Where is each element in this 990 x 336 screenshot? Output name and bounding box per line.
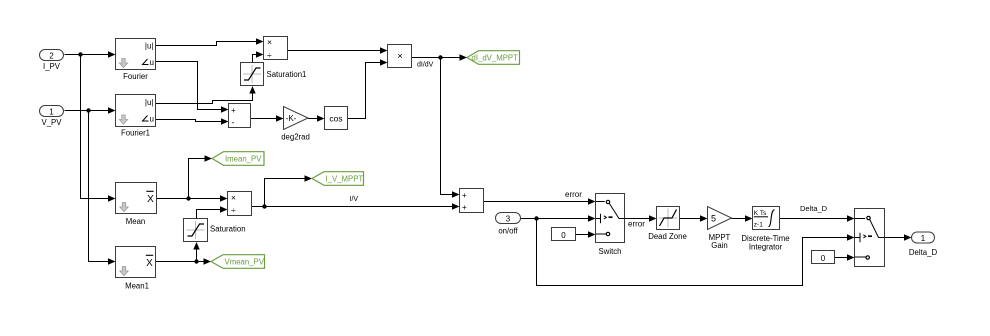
svg-text:dI/dV: dI/dV bbox=[417, 62, 434, 69]
block Saturation1 bbox=[241, 63, 307, 86]
svg-text:Fourier1: Fourier1 bbox=[121, 128, 150, 137]
wire Fourier1 |u| to Saturation1 bottom input bbox=[156, 86, 256, 104]
svg-text:deg2rad: deg2rad bbox=[281, 133, 310, 142]
svg-text:-: - bbox=[232, 118, 235, 128]
goto tag Vmean_PV bbox=[211, 255, 265, 269]
wire V_PV to Fourier1 bbox=[65, 107, 116, 113]
svg-text:+: + bbox=[462, 203, 467, 212]
wire I_PV to Fourier bbox=[65, 51, 116, 57]
svg-text:Fourier: Fourier bbox=[123, 72, 148, 81]
junction on dI/dV wire bbox=[438, 55, 442, 59]
svg-text:Integrator: Integrator bbox=[749, 242, 783, 251]
svg-text:X: X bbox=[147, 194, 154, 205]
svg-text:-K-: -K- bbox=[286, 114, 297, 123]
svg-text:Vmean_PV: Vmean_PV bbox=[225, 258, 265, 267]
wire Constant to Switch lower input bbox=[576, 231, 596, 237]
svg-text:2: 2 bbox=[49, 51, 54, 60]
wire Switch1 to Delta_D outport bbox=[885, 234, 912, 240]
block Constant 0 bbox=[552, 228, 576, 241]
wire dI/dV branch down to Sum1 upper input bbox=[441, 58, 460, 198]
svg-text:+: + bbox=[462, 191, 467, 200]
wire Dead Zone to MPPT Gain bbox=[680, 215, 708, 221]
svg-text:Gain: Gain bbox=[711, 241, 727, 250]
svg-text:1: 1 bbox=[921, 234, 926, 243]
block Saturation bbox=[184, 219, 246, 242]
block Discrete-Time Integrator bbox=[741, 207, 789, 252]
outport 1 Delta_D bbox=[909, 232, 938, 257]
svg-text:×: × bbox=[267, 37, 272, 47]
junction on on/off wire bbox=[534, 216, 538, 220]
inport 3 on/off bbox=[496, 213, 521, 236]
svg-text:3: 3 bbox=[506, 214, 511, 223]
svg-text:error: error bbox=[565, 190, 582, 199]
wire Mean to Divide2 x input bbox=[157, 195, 228, 201]
block Dead Zone bbox=[648, 207, 687, 242]
block Fourier bbox=[116, 39, 156, 82]
wire Sum1 to Switch upper input, label error bbox=[484, 190, 596, 205]
wire on/off to Switch middle input bbox=[521, 215, 596, 221]
block Sum1 plus-plus bbox=[460, 189, 484, 213]
goto tag I_V_MPPT bbox=[312, 172, 364, 186]
svg-text:I_PV: I_PV bbox=[43, 62, 61, 71]
block Switch1 bbox=[855, 209, 885, 267]
svg-text:0: 0 bbox=[561, 231, 566, 240]
svg-text:Dead Zone: Dead Zone bbox=[648, 232, 687, 241]
junction on I_PV wire bbox=[78, 52, 82, 56]
wire Divide1 to Product bbox=[288, 47, 388, 53]
svg-text:Saturation1: Saturation1 bbox=[267, 70, 307, 79]
wire Mean1 branch up to Saturation bottom input bbox=[193, 242, 199, 262]
block deg2rad gain bbox=[281, 107, 310, 142]
wire Saturation1 to Divide1 divide input bbox=[253, 51, 264, 62]
block Divide2 bbox=[228, 192, 252, 216]
wire Mean branch up to Imean_PV tag bbox=[189, 155, 213, 198]
block Fourier1 bbox=[116, 95, 156, 138]
wire cos to Product lower input bbox=[348, 59, 388, 118]
block cos bbox=[325, 107, 348, 130]
wire Integrator to Switch1 upper input, label Delta_D bbox=[780, 204, 855, 222]
wire Sum2 to deg2rad bbox=[251, 115, 284, 121]
block Switch bbox=[596, 194, 625, 257]
block MPPT Gain bbox=[708, 207, 732, 251]
svg-text:×: × bbox=[397, 51, 403, 62]
svg-text:dI_dV_MPPT: dI_dV_MPPT bbox=[472, 54, 519, 63]
svg-text:×: × bbox=[231, 193, 236, 203]
wire Switch to Dead Zone, label error bbox=[625, 215, 657, 228]
wire deg2rad to cos bbox=[308, 115, 325, 121]
svg-text:Delta_D: Delta_D bbox=[909, 248, 938, 257]
block Mean bbox=[116, 183, 157, 227]
svg-text:z-1: z-1 bbox=[754, 222, 763, 229]
svg-text:u: u bbox=[150, 58, 154, 67]
goto tag Imean_PV bbox=[212, 152, 264, 166]
wire Constant1 to Switch1 lower input bbox=[835, 254, 855, 260]
svg-text:|u|: |u| bbox=[145, 98, 154, 107]
svg-text:I_V_MPPT: I_V_MPPT bbox=[326, 175, 364, 184]
svg-text:+: + bbox=[231, 106, 236, 115]
svg-text:5: 5 bbox=[711, 214, 716, 224]
inport 1 V_PV bbox=[40, 106, 64, 128]
wire Saturation to Divide2 divide input bbox=[197, 206, 228, 218]
junction on V_PV wire bbox=[86, 108, 90, 112]
wire Product to dI_dV_MPPT tag, label dI/dV bbox=[412, 54, 468, 68]
wire Mean1 to Vmean_PV tag bbox=[156, 258, 212, 264]
goto tag dI_dV_MPPT bbox=[467, 51, 520, 65]
svg-text:Saturation: Saturation bbox=[210, 225, 246, 234]
svg-text:V_PV: V_PV bbox=[42, 118, 63, 127]
block Divide1 bbox=[264, 37, 288, 60]
svg-text:Mean: Mean bbox=[126, 217, 146, 226]
block Mean1 bbox=[116, 247, 156, 291]
wire Fourier |u| to Divide1 x input bbox=[156, 38, 264, 45]
junction on Mean1 output bbox=[194, 259, 198, 263]
svg-text:cos: cos bbox=[329, 113, 342, 123]
junction on I/V wire bbox=[262, 204, 266, 208]
wire MPPT Gain to Discrete-Time Integrator bbox=[732, 215, 753, 221]
block Constant1 0 bbox=[812, 251, 835, 264]
svg-text:on/off: on/off bbox=[498, 227, 518, 236]
svg-text:Switch: Switch bbox=[599, 247, 622, 256]
svg-text:1: 1 bbox=[49, 107, 54, 116]
wire Divide2 to Sum1 lower input, label I/V bbox=[252, 196, 460, 210]
wire Fourier angle-u to Sum2 plus input bbox=[156, 62, 229, 113]
svg-text:X: X bbox=[146, 258, 153, 269]
wire V_PV branch down to Mean1 bbox=[89, 111, 116, 265]
svg-text:K Ts: K Ts bbox=[754, 210, 767, 217]
wire I_PV branch down to Mean bbox=[81, 55, 116, 202]
block Product bbox=[388, 45, 412, 68]
svg-text:Delta_D: Delta_D bbox=[800, 204, 828, 213]
svg-text:u: u bbox=[150, 115, 154, 124]
svg-text:error: error bbox=[628, 220, 645, 229]
svg-text:÷: ÷ bbox=[231, 205, 236, 215]
svg-text:|u|: |u| bbox=[145, 42, 154, 51]
junction on Mean output bbox=[186, 196, 190, 200]
wire on/off branch down and around to Switch1 middle input bbox=[537, 219, 855, 286]
block Sum2 plus-minus bbox=[229, 104, 251, 128]
svg-text:Mean1: Mean1 bbox=[125, 282, 149, 291]
svg-text:÷: ÷ bbox=[267, 50, 272, 60]
wire I/V branch up to I_V_MPPT tag bbox=[265, 175, 313, 206]
svg-text:Imean_PV: Imean_PV bbox=[225, 155, 262, 164]
svg-text:0: 0 bbox=[821, 254, 826, 263]
svg-text:I/V: I/V bbox=[350, 196, 359, 203]
wire Fourier1 angle-u to Sum2 minus input bbox=[156, 118, 229, 124]
inport 2 I_PV bbox=[40, 50, 64, 72]
